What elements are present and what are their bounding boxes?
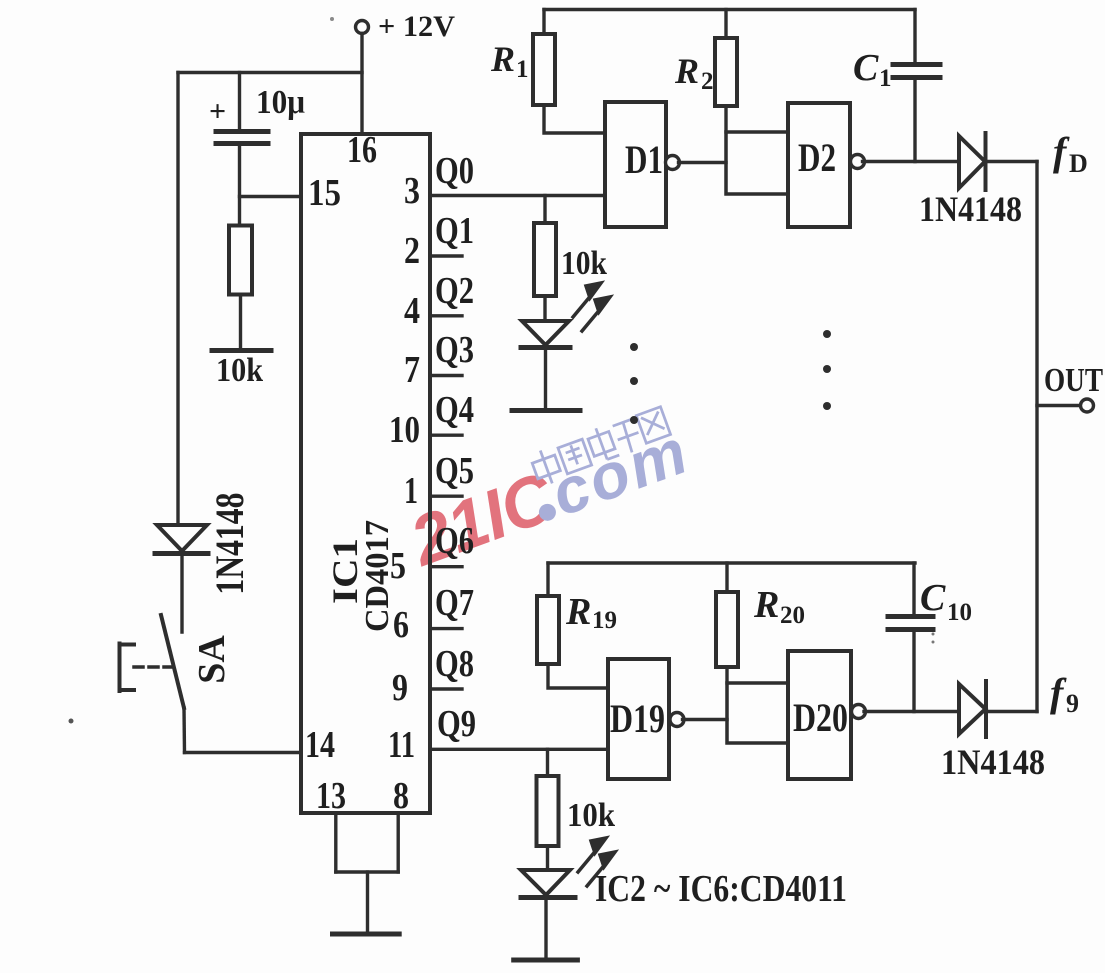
resistor R20 body (716, 592, 738, 667)
wire SA to pin14 (185, 751, 302, 754)
gate D1 output bubble (666, 156, 680, 170)
svg-text:1N4148: 1N4148 (207, 493, 252, 595)
resistor 10k left lead (239, 295, 242, 349)
svg-text:D20: D20 (793, 695, 848, 740)
capacitor C1 plates (893, 62, 940, 67)
wire bottom oscillator rail (548, 561, 915, 564)
resistor 10k Q9 lead top (546, 749, 549, 776)
wire D2 out to diode (863, 160, 960, 163)
wire D19 out to box (683, 718, 728, 721)
svg-text:1N4148: 1N4148 (941, 742, 1045, 782)
svg-text:Q8: Q8 (435, 643, 474, 685)
capacitor C1 lead bottom (913, 80, 916, 162)
svg-text:+: + (209, 95, 226, 128)
gate D1 body (605, 102, 666, 227)
svg-text:16: 16 (347, 129, 377, 171)
wire right vertical rail (1035, 162, 1038, 712)
svg-text:4: 4 (404, 290, 420, 332)
resistor R1 body (533, 34, 555, 105)
switch SA arm (161, 615, 184, 708)
svg-text:10k: 10k (561, 245, 607, 282)
WATERMARK (396, 402, 698, 582)
speck top-left (330, 17, 334, 21)
wire diode to corner fD (986, 160, 1038, 163)
svg-text:C: C (920, 577, 946, 619)
wire pin13-pin8 join (336, 870, 398, 873)
svg-text:14: 14 (305, 724, 335, 766)
gate D20 output bubble (852, 705, 866, 719)
LED2 arrows (578, 838, 615, 886)
svg-text:OUT: OUT (1044, 362, 1103, 399)
LED1 lead (544, 348, 547, 409)
resistor R19 lead top (546, 563, 549, 596)
capacitor C 10u lead bottom (238, 146, 241, 226)
capacitor C10 plates (888, 614, 933, 619)
svg-text:Q4: Q4 (435, 389, 474, 431)
LED1 triangle (522, 321, 569, 345)
resistor R1 lead bottom (544, 105, 605, 133)
svg-text:1: 1 (879, 65, 892, 92)
svg-text:6: 6 (393, 604, 409, 646)
网 (636, 407, 670, 443)
coupling box top (726, 132, 788, 194)
resistor 10k left body (229, 226, 252, 295)
speck left-mid (69, 719, 74, 724)
resistor 10k Q9 body (537, 776, 559, 846)
svg-text:Q0: Q0 (435, 150, 474, 192)
svg-text:10k: 10k (216, 352, 263, 389)
wire +12V vertical to IC pin16 (360, 34, 363, 135)
svg-text:1: 1 (516, 56, 529, 83)
svg-text:3: 3 (404, 170, 420, 212)
svg-text:7: 7 (404, 349, 420, 391)
resistor 10k Q0 lead bottom (543, 296, 546, 321)
diode top 1N4148 triangle (959, 136, 985, 188)
ground IC (333, 932, 400, 937)
pin tick Q8 (430, 687, 462, 690)
pin tick Q7 (430, 627, 462, 630)
wire pin8 drop (397, 813, 400, 872)
svg-text:9: 9 (392, 667, 408, 709)
resistor 10k Q0 body (534, 223, 556, 296)
wire Q9 to D19 (430, 748, 608, 751)
capacitor C10 lead bottom (912, 632, 915, 712)
capacitor C 10u plates (216, 129, 268, 134)
wire diode to corner f9 (986, 710, 1037, 713)
svg-text:Q5: Q5 (435, 450, 474, 492)
ground left 10k (212, 348, 271, 353)
svg-text:D: D (1069, 149, 1088, 178)
gate D19 output bubble (670, 713, 684, 727)
svg-text:D19: D19 (610, 696, 665, 741)
国 (558, 439, 592, 474)
svg-text:19: 19 (592, 607, 617, 634)
capacitor C 10u lead top (238, 73, 241, 130)
pin tick Q2 (430, 314, 462, 317)
pin tick Q5 (430, 495, 462, 498)
电 (588, 431, 615, 456)
resistor R19 lead bottom (548, 664, 608, 688)
diode top cathode bar (984, 133, 988, 190)
wire D1 out to box (679, 161, 727, 164)
OUT terminal (1081, 399, 1094, 412)
diode D left 1N4148 triangle (157, 525, 207, 551)
svg-text:Q1: Q1 (435, 210, 474, 252)
dots ellipsis left (630, 330, 831, 424)
gate D19 body (608, 659, 669, 779)
svg-text:D1: D1 (625, 137, 663, 182)
dots ellipsis right (823, 330, 831, 338)
svg-text:13: 13 (316, 775, 346, 817)
svg-text:R: R (674, 51, 699, 91)
switch SA arm drop (182, 708, 186, 753)
coupling box bottom (727, 683, 788, 743)
diode bottom cathode bar (984, 681, 988, 737)
LED1 arrows (573, 283, 610, 331)
pushbutton dashed link (134, 665, 175, 669)
diode D left lead (180, 554, 183, 633)
svg-text:R: R (565, 591, 591, 633)
svg-text:Q9: Q9 (437, 703, 476, 745)
svg-text:8: 8 (393, 775, 409, 817)
diode bottom 1N4148 triangle (959, 684, 986, 734)
svg-text:C: C (853, 47, 879, 89)
svg-text:10: 10 (389, 409, 420, 451)
svg-text:20: 20 (780, 602, 805, 629)
wire top-left horizontal (178, 71, 362, 74)
LED2 lead (544, 898, 547, 959)
wire top oscillator rail (544, 8, 915, 11)
resistor R20 lead bottom (725, 667, 728, 683)
wire center drop to ground (366, 872, 369, 932)
capacitor C1 lead top (913, 10, 916, 63)
wire OUT branch (1037, 404, 1080, 407)
svg-text:Q6: Q6 (435, 520, 474, 562)
resistor 10k Q0 lead top (543, 196, 546, 224)
pin tick Q3 (430, 374, 462, 377)
svg-text:10k: 10k (567, 797, 615, 834)
resistor R2 body (715, 38, 737, 106)
capacitor C10 lead top (912, 563, 915, 614)
svg-text:9: 9 (1066, 689, 1079, 718)
wire D20 out to diode (864, 710, 958, 713)
ground LED1 (512, 408, 580, 413)
svg-text:11: 11 (388, 724, 415, 766)
ground LED2 (514, 958, 578, 963)
IC1 CD4017 body (301, 134, 430, 813)
svg-text:Q7: Q7 (435, 582, 474, 624)
resistor R2 lead bottom (724, 106, 727, 132)
子 (613, 419, 632, 426)
svg-text:10: 10 (947, 599, 972, 626)
wire pin13 drop (334, 813, 337, 872)
diode D left cathode bar (155, 551, 208, 556)
resistor R19 body (537, 596, 559, 664)
pushbutton bracket (118, 644, 122, 692)
中 (532, 455, 560, 479)
power terminal +12V (356, 21, 369, 34)
gate D2 body (788, 103, 850, 227)
gate D2 output bubble (851, 155, 865, 169)
pin tick Q6 (430, 565, 462, 568)
LED2 triangle (521, 870, 570, 895)
wire left vertical rail (176, 73, 179, 526)
svg-text:R: R (490, 39, 515, 79)
resistor R1 lead top (542, 10, 545, 35)
pin tick Q4 (430, 434, 462, 437)
svg-text:IC2 ~ IC6:CD4011: IC2 ~ IC6:CD4011 (595, 868, 847, 910)
svg-text:2: 2 (404, 230, 420, 272)
gate D20 body (788, 651, 851, 779)
svg-text:15: 15 (308, 172, 341, 214)
svg-text:1N4148: 1N4148 (919, 189, 1022, 229)
svg-text:R: R (753, 584, 779, 626)
svg-text:Q2: Q2 (435, 270, 474, 312)
wire Q0 to D1 (430, 194, 605, 197)
resistor R20 lead top (725, 563, 728, 592)
resistor R2 lead top (724, 10, 727, 39)
wire pin15 (240, 195, 302, 198)
svg-text:SA: SA (191, 635, 233, 684)
svg-text:D2: D2 (798, 135, 836, 180)
svg-text:+ 12V: + 12V (378, 10, 455, 43)
svg-text:2: 2 (701, 68, 714, 95)
svg-text:5: 5 (390, 545, 406, 587)
svg-text:1: 1 (404, 470, 418, 512)
LED2 cathode bar (521, 895, 575, 900)
resistor 10k Q9 lead bottom (546, 846, 549, 870)
svg-text:Q3: Q3 (435, 329, 474, 371)
svg-text:10μ: 10μ (256, 84, 305, 121)
speck colon right (932, 633, 935, 636)
pin tick Q1 (430, 254, 462, 257)
LED1 cathode bar (521, 345, 570, 350)
